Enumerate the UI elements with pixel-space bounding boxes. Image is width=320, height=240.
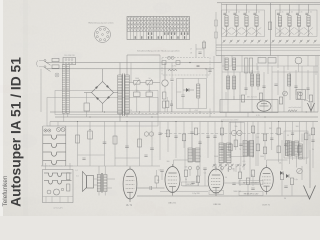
svg-text:41: 41 [258,11,260,13]
coil L6 with trimmer [289,4,291,36]
PSU enclosure outer [47,98,158,127]
top bus wire [217,2,320,4]
electrolytic C51 [134,92,141,97]
coil L5 with trimmer [279,4,281,36]
right drop field verticals [214,122,216,169]
tube top leads [174,156,297,182]
drop small caps 2 [82,158,85,159]
svg-text:0,1: 0,1 [204,173,207,175]
box coil L10 [197,84,200,98]
scale lamp [55,73,59,77]
svg-text:UL 71: UL 71 [126,204,133,207]
right edge verticals [302,134,310,181]
extra tube-area verticals [185,134,304,181]
dashed shield line [160,133,284,135]
transformer secondary winding [125,75,129,114]
tuner mesh verticals [221,56,223,113]
coil L7 with trimmer [298,4,300,36]
ladder trimmer circles [57,128,61,132]
right contact row [213,164,214,165]
tone filter pot small [47,190,51,194]
mains bus wire A [46,62,222,64]
middle drop circle group [144,132,148,136]
drop res1 [77,122,79,167]
FM antenna squiggle [304,100,312,102]
table lower filled cells [147,32,149,35]
antenna coupling parts [196,40,204,57]
band switch contact row [223,40,224,41]
output tube UL71 [123,169,137,199]
svg-text:50: 50 [148,78,150,80]
svg-text:50: 50 [225,177,227,179]
mixer tube V4 [260,168,274,192]
detector diodes [280,171,283,175]
right contact row ticks [215,168,217,172]
right coil bank box [276,10,318,37]
ladder parts on feeder [215,20,218,26]
box wiring [177,79,199,113]
svg-text:L-Bereich: L-Bereich [169,28,177,31]
sub-row coil B [233,58,236,70]
drop res6 [139,122,141,167]
middle drop caps [158,133,161,134]
wave trap circles [168,56,171,59]
fuse Si2 [52,65,59,68]
loudspeaker [83,172,87,192]
svg-text:50: 50 [284,198,286,200]
svg-text:0,1µ: 0,1µ [294,179,298,181]
bottom caps [191,182,194,183]
svg-text:M-Bereich: M-Bereich [169,32,178,35]
ratio det core [247,141,250,157]
ladder rails [43,126,66,166]
coil L4 with trimmer [256,4,258,36]
sub-row coil A [225,58,228,70]
T3 core [225,143,226,163]
left coil bank box [222,10,265,37]
antenna series cap [198,52,201,53]
IF transformer T3 A [219,143,224,163]
svg-text:5k: 5k [185,179,187,181]
band switch contact table frame [127,17,190,40]
ladder coil Lw3 [43,152,66,156]
IF transformer T3 B [227,143,232,163]
svg-text:300: 300 [296,126,299,128]
tone filter trimmer [61,188,64,191]
svg-text:5000 1M: 5000 1M [233,191,241,193]
tone filter frame [43,170,74,203]
tuner coil right [288,74,291,86]
bridge rectifier Gr1 [92,82,114,104]
antenna resistor [203,42,206,48]
grid resistors [184,170,187,177]
svg-text:0,8-1,2: 0,8-1,2 [213,193,219,195]
coupling cap C30 [150,186,151,190]
tuner mesh horizontals [222,66,318,72]
svg-text:+205: +205 [194,110,198,112]
svg-text:1000: 1000 [260,156,264,158]
value label box A [239,181,263,185]
bottom wire runs [182,183,260,186]
ladder top connections [43,122,66,167]
right box FM [284,131,308,158]
tuner sub-row wires [224,56,316,76]
resistor R51 [146,81,153,85]
tuning indicator box [220,100,278,113]
table X contact marks [127,17,190,32]
svg-text:41: 41 [238,11,240,13]
svg-text:UBF 80: UBF 80 [213,204,221,206]
mid resistor chain [163,92,166,99]
ladder coil Lw4 [43,161,66,165]
audio long wire [66,165,160,167]
svg-text:300: 300 [167,161,170,163]
svg-text:5000: 5000 [214,156,218,158]
svg-text:(2×0,1µF): (2×0,1µF) [54,207,63,210]
svg-text:17: 17 [190,49,192,51]
transformer primary winding [118,75,122,114]
bus wire 3 below switches [216,49,320,51]
coupling resistor R31 [155,176,158,183]
mid caps [170,79,173,80]
svg-text:UBC 81: UBC 81 [168,203,176,205]
svg-text:Schalterstellung von der Skala: Schalterstellung von der Skala aus geseh… [137,50,180,53]
svg-text:0,1: 0,1 [75,170,78,172]
PSU box bottom dashed [127,113,215,115]
svg-text:~220: ~220 [128,110,132,112]
tuner sub-row boxes [258,58,266,64]
output transformer core [101,173,102,193]
tone filter resistor A [67,173,70,180]
zigzag resistor R30 [288,110,297,112]
PSU vertical feeds [131,55,160,112]
AM trimmer box [296,90,306,100]
junction column between banks [270,3,272,56]
IF transformer T2 B [196,148,201,162]
tone filter notch coil row 2 [44,181,72,185]
svg-text:4,5: 4,5 [76,176,79,178]
svg-text:41: 41 [248,11,250,13]
zigzag resistor R21 [168,69,177,71]
coil L2 with trimmer [236,4,238,36]
svg-text:Met. Schirm: Met. Schirm [247,96,258,99]
svg-text:5k: 5k [312,149,314,151]
voltage selector plate [63,58,76,65]
FM coil A [286,141,290,156]
output transformer primary [97,175,101,192]
magic eye EM71 [257,101,271,111]
FM coil B [299,144,303,159]
svg-text:18: 18 [190,53,192,55]
svg-text:70: 70 [239,149,241,151]
bus wire 4 below switches [216,55,320,57]
svg-text:41: 41 [282,11,284,13]
right box around det [229,123,245,157]
bottom bus 2 [160,191,208,193]
svg-text:110 150 220: 110 150 220 [64,55,74,57]
T2 core [193,148,194,162]
middle drop resistors [166,130,169,137]
speaker wiring [94,166,116,196]
bias label strip [182,182,199,186]
svg-text:0,1: 0,1 [159,170,162,172]
svg-text:gemessen bei 220V~: gemessen bei 220V~ [221,119,240,121]
drop cap5 [126,122,128,167]
svg-text:41: 41 [301,11,303,13]
drop cap3 [104,122,106,167]
electrolytic C52 [146,92,153,97]
feeder column left [216,3,222,63]
pot with arrow [283,91,288,96]
svg-text:0,5: 0,5 [221,135,224,137]
svg-text:50k: 50k [235,126,238,128]
IF transformer T2 A [188,148,193,162]
tuner IF coil pair [251,74,254,86]
middle drop verticals [159,122,161,161]
svg-text:(170): (170) [172,66,177,68]
FM antenna dipole top [310,103,312,113]
right drop resistors [220,128,223,135]
coil L3 with trimmer [246,4,248,36]
svg-text:-2V 0,25: -2V 0,25 [187,184,194,186]
T4 core [293,141,294,156]
tone filter inner verticals [43,197,74,203]
bottom verticals [162,165,292,196]
tube socket circle [95,27,111,43]
bottom bus [137,195,310,197]
ratio detector coil pair [243,141,247,157]
sub-row IF can [245,58,248,73]
tone box feed wires [46,163,71,170]
chassis bus line 3 [50,121,318,123]
smoothing electrolytic C50 [84,103,90,111]
svg-text:10k: 10k [279,163,282,165]
tone filter pot big [54,189,60,195]
svg-text:am Drehko bef.: am Drehko bef. [289,106,302,109]
svg-text:1000: 1000 [135,78,139,80]
coil L8 with trimmer [308,4,310,36]
mains plug curve [37,61,39,67]
indicator wires [226,92,248,117]
dashed shield box [162,58,210,76]
T2 trimmers [188,166,191,169]
value label box B [239,192,263,196]
drop cap7 [151,122,153,167]
dial drive column B [66,65,69,114]
transformer leads [120,55,160,122]
tuner caps mid [244,88,247,89]
box cap C10 [181,95,184,96]
mains bus wire B [46,68,214,70]
box diode D1 [186,88,189,92]
mid verticals [165,56,214,117]
svg-text:41: 41 [310,11,312,13]
IF transformer T4 A [288,141,292,156]
svg-text:Autosuper IA 51 / ID 51: Autosuper IA 51 / ID 51 [9,57,24,207]
choke R50 [134,81,141,85]
svg-text:WERKSTATTWERT: WERKSTATTWERT [243,182,260,185]
IF transformer T4 B [295,141,299,156]
tone filter notch coil row 1 [44,173,72,177]
IF tube V2 [165,167,180,193]
svg-text:REGELSPG. 0,8V: REGELSPG. 0,8V [244,194,259,196]
svg-text:41: 41 [291,11,293,13]
chassis bus line 2 [55,116,318,118]
tuner sub-row circle [295,57,302,64]
tuner resistors mid [241,95,244,102]
IF tube V3 [208,169,224,193]
ladder coil Lw1 [43,135,66,139]
mains switch S1 [44,60,46,62]
fuse Si1 [52,58,59,61]
svg-text:41: 41 [228,11,230,13]
bridge connections [84,69,118,112]
ladder coil Lw2 [43,144,66,148]
mains transformer core [123,74,125,117]
tone filter resistor B [67,184,70,191]
T3 trimmers [220,166,223,169]
svg-text:25: 25 [287,135,289,137]
sub box [177,79,207,109]
pot P1 [162,80,168,86]
svg-text:25: 25 [232,169,234,171]
PSU inner parts [166,101,169,108]
right drop caps [213,136,216,137]
inter-bank component [268,22,271,30]
bus wire below switches [216,44,320,46]
heater feed vertical [164,63,166,80]
bus wire 2 below switches [216,47,320,49]
drop elo2 [89,122,91,167]
svg-text:0,1: 0,1 [257,137,260,139]
diode detector arrow [309,150,311,188]
right drop pots [231,130,236,135]
dial column leads [64,113,68,121]
drop res4 [114,122,116,167]
coil L1 with trimmer [226,4,228,36]
svg-text:Röhrenfassung von unten: Röhrenfassung von unten [88,22,114,25]
dial drive column A [62,65,65,114]
output transformer secondary [104,175,108,192]
junction dots [77,121,78,122]
tuner osc coils [227,76,230,89]
top bus wire 2 [222,3,320,5]
bus tick parts [162,61,166,65]
svg-text:UCH 71: UCH 71 [262,205,271,207]
value label box C [209,191,224,195]
det pot [297,168,303,174]
PSU enclosure inner [55,91,158,115]
drop horizontals [78,155,140,158]
svg-text:0,1µ 200: 0,1µ 200 [192,193,199,195]
ladder switch circles [44,129,47,132]
chassis bus line 1 [50,111,318,113]
